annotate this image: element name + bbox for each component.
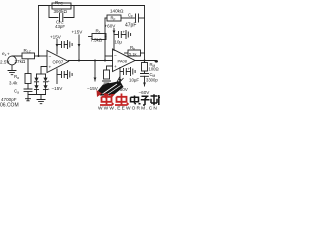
watermark chong char1: [100, 94, 114, 106]
svg-text:47pF: 47pF: [125, 23, 136, 29]
svg-text:06.COM: 06.COM: [0, 103, 19, 109]
wire diode network bottom: [28, 94, 46, 96]
wire opamp1 Vminus: [56, 69, 58, 84]
ground elec bottom rotated: [131, 68, 136, 76]
wire +15V arrow2: [78, 35, 80, 61]
source es: [8, 56, 17, 65]
wire source to R1C: [12, 55, 22, 57]
resistor RFC: [52, 3, 71, 9]
wire R1C to opamp: [35, 55, 48, 57]
output terminal dot: [155, 60, 158, 63]
wire +60V supply vertical: [113, 29, 115, 51]
svg-text:27kΩ: 27kΩ: [15, 59, 26, 64]
resistor Rb current limit: [128, 50, 141, 56]
wire source bottom: [11, 65, 13, 70]
wire snubber mid: [144, 71, 146, 73]
resistor R1: [92, 34, 106, 40]
wire cap loop right: [64, 6, 74, 18]
wire opamp2 plus input: [107, 66, 113, 70]
wire cap loop left: [49, 6, 58, 18]
svg-text:−15V: −15V: [87, 86, 99, 91]
svg-text:+15V: +15V: [50, 35, 62, 40]
wire elec cap bottom branch: [120, 71, 123, 73]
wire Rb left lead: [125, 52, 129, 54]
ground Ca small: [26, 95, 31, 101]
svg-text:3300p: 3300p: [146, 78, 158, 83]
diode D4: [43, 85, 47, 89]
svg-text:100Ω: 100Ω: [149, 67, 159, 72]
svg-text:5.1k: 5.1k: [129, 52, 137, 57]
svg-text:10μF: 10μF: [129, 78, 139, 83]
wire left feedback vertical: [38, 6, 40, 57]
wire opamp1 plus input: [41, 67, 47, 75]
svg-text:+15V: +15V: [72, 30, 84, 35]
arrowhead snubber -60V: [143, 83, 146, 87]
wire top feedback horizontal: [39, 5, 145, 7]
svg-text:+: +: [48, 80, 51, 84]
svg-text:43pF: 43pF: [55, 24, 65, 29]
resistor Rw: [142, 63, 148, 72]
wire cap to ground bottom: [64, 74, 67, 76]
resistor Ra vertical: [25, 74, 31, 84]
wire opamp2 Vminus: [119, 68, 121, 83]
arrowhead -60V: [119, 79, 122, 83]
capacitor CFC: [60, 14, 63, 22]
svg-text:RF: RF: [111, 16, 116, 22]
wire elec cap top branch: [114, 34, 118, 36]
svg-text:Ca: Ca: [14, 89, 19, 95]
wire opamp1 output: [69, 60, 113, 62]
capacitor decoupling bottom: [62, 72, 65, 78]
op-amp U1 OP07 triangle: [47, 51, 69, 73]
svg-text:OP07: OP07: [53, 60, 64, 65]
wire decoupling top branch: [57, 44, 61, 46]
node output right junction: [144, 60, 146, 62]
svg-text:CF: CF: [128, 13, 133, 19]
wire elec bottom to ground: [126, 71, 130, 73]
svg-text:−: −: [49, 55, 52, 60]
watermark chong char2: [115, 94, 129, 106]
capacitor Cw: [141, 74, 149, 77]
svg-text:10μ: 10μ: [115, 40, 123, 45]
node output junction2: [94, 60, 96, 62]
svg-text:3.4k: 3.4k: [9, 81, 18, 86]
svg-text:R1C: R1C: [24, 48, 32, 54]
svg-text:7.5kΩ: 7.5kΩ: [91, 38, 103, 43]
wire -15V arrow: [94, 61, 96, 82]
capacitor elec top: [119, 32, 122, 38]
wire decoupling bottom branch: [57, 74, 61, 76]
wire RF row left: [105, 17, 107, 19]
svg-text:RFC: RFC: [55, 0, 63, 6]
svg-text:+: +: [114, 65, 117, 70]
wire opamp2 minus stub: [105, 55, 113, 57]
wire Rb right lead: [141, 52, 145, 54]
arrowhead +15V: [56, 44, 59, 48]
svg-text:−60V: −60V: [139, 90, 151, 95]
resistor R1C: [22, 53, 35, 59]
watermark text dianzi xiazaizhan: [131, 94, 161, 105]
svg-text:es: es: [2, 51, 7, 57]
wire elec top to ground: [121, 34, 126, 36]
arrowhead +15V arrow2: [78, 44, 81, 48]
wire snubber bottom: [144, 76, 146, 86]
wire RF node vertical: [104, 18, 106, 61]
wire snubber top: [144, 61, 146, 63]
wire diode network top: [37, 73, 46, 75]
ground R2: [103, 81, 111, 85]
wire RF to CF: [121, 17, 135, 19]
svg-text:R1: R1: [96, 29, 101, 35]
wire opamp2 output: [135, 60, 156, 62]
wire right feedback vertical: [144, 6, 146, 61]
svg-text:390kΩ: 390kΩ: [54, 9, 68, 14]
capacitor CF: [136, 14, 139, 22]
svg-text:+: +: [123, 30, 126, 35]
wire Ra to Ca: [27, 84, 29, 89]
wire +15V to opamp top: [56, 40, 58, 55]
wire CF to right vertical: [139, 17, 145, 19]
ground source: [8, 71, 16, 75]
ground elec top rotated: [126, 31, 131, 39]
ground decoupling bottom rotated: [68, 71, 73, 79]
op-amp U2 PA08 triangle: [113, 49, 136, 72]
capacitor Ca: [24, 89, 32, 92]
capacitor decoupling top: [62, 42, 65, 48]
diode D3: [43, 78, 47, 82]
arrowhead +60V: [113, 31, 116, 35]
wire R1 left stub: [89, 36, 93, 38]
resistor RF: [107, 15, 121, 21]
wire to ground bottom: [40, 95, 42, 100]
wire Ra chain top: [27, 59, 29, 74]
svg-text:2.5V: 2.5V: [0, 60, 10, 65]
wire cap to ground top: [64, 44, 67, 46]
svg-text:+60V: +60V: [105, 24, 117, 29]
svg-text:4700pF: 4700pF: [1, 97, 17, 102]
node opamp2 in junction: [104, 60, 106, 62]
svg-text:WWW.EEWORM.CN: WWW.EEWORM.CN: [98, 106, 158, 110]
svg-text:140kΩ: 140kΩ: [110, 9, 124, 14]
svg-text:Ra: Ra: [14, 74, 19, 80]
node output junction1: [78, 60, 80, 62]
svg-text:PA08: PA08: [118, 59, 128, 64]
arrowhead -15V arrow: [94, 78, 97, 82]
svg-text:+: +: [48, 88, 51, 92]
wire R1 to node vertical: [105, 36, 106, 38]
svg-text:+: +: [49, 66, 52, 71]
svg-text:+: +: [7, 52, 10, 57]
wire Ca to bottom: [27, 92, 29, 95]
node feedback input junction: [38, 55, 40, 57]
diode D1: [34, 78, 38, 82]
ground decoupling top rotated: [68, 41, 73, 49]
diode D2: [34, 85, 38, 89]
watermark beetle logo: [97, 77, 124, 99]
svg-text:−15V: −15V: [52, 86, 64, 91]
resistor R2 vertical: [104, 70, 110, 79]
capacitor elec bottom: [124, 69, 127, 75]
svg-text:Rb: Rb: [130, 45, 135, 51]
ground diode network: [37, 100, 45, 104]
